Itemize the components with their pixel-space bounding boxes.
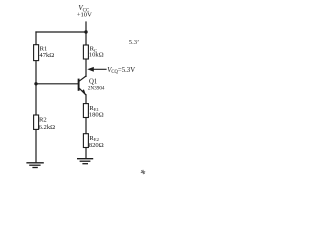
- wire Vcc lead: [85, 22, 87, 45]
- stray mark bottom right: [141, 170, 145, 174]
- resistor R2: [34, 115, 56, 131]
- transistor Q1 2N3904: [79, 76, 105, 95]
- svg-text:820Ω: 820Ω: [89, 142, 104, 149]
- wire R1 to R2: [35, 61, 37, 115]
- net label VCC supply: [77, 4, 92, 19]
- ground right: [77, 159, 93, 164]
- wire base: [36, 83, 78, 85]
- svg-text:+10V: +10V: [77, 12, 92, 19]
- svg-text:47kΩ: 47kΩ: [39, 52, 54, 59]
- resistor RE1: [83, 104, 103, 119]
- resistor R1: [34, 45, 55, 61]
- wire emitter: [85, 95, 87, 104]
- annotation VCQ arrow: [87, 67, 135, 75]
- wire RE1 to RE2: [85, 118, 87, 134]
- ground left: [26, 163, 43, 168]
- wire top rail: [36, 31, 86, 33]
- svg-text:2N3904: 2N3904: [88, 86, 105, 92]
- resistor RE2: [83, 134, 103, 149]
- resistor RC: [83, 45, 103, 59]
- svg-text:6.2kΩ: 6.2kΩ: [39, 124, 56, 131]
- wire R2 to ground: [35, 129, 37, 162]
- svg-text:10kΩ: 10kΩ: [89, 51, 104, 58]
- wire collector: [85, 59, 87, 76]
- svg-text:Q1: Q1: [89, 78, 97, 85]
- svg-text:180Ω: 180Ω: [89, 112, 104, 119]
- wire left upper: [35, 32, 37, 45]
- node junction dot Vcc/top rail: [84, 30, 87, 33]
- svg-text:R2: R2: [39, 117, 47, 124]
- svg-text:5.3’: 5.3’: [129, 39, 139, 46]
- node junction dot base divider: [34, 82, 37, 85]
- wire RE2 to ground: [85, 148, 87, 159]
